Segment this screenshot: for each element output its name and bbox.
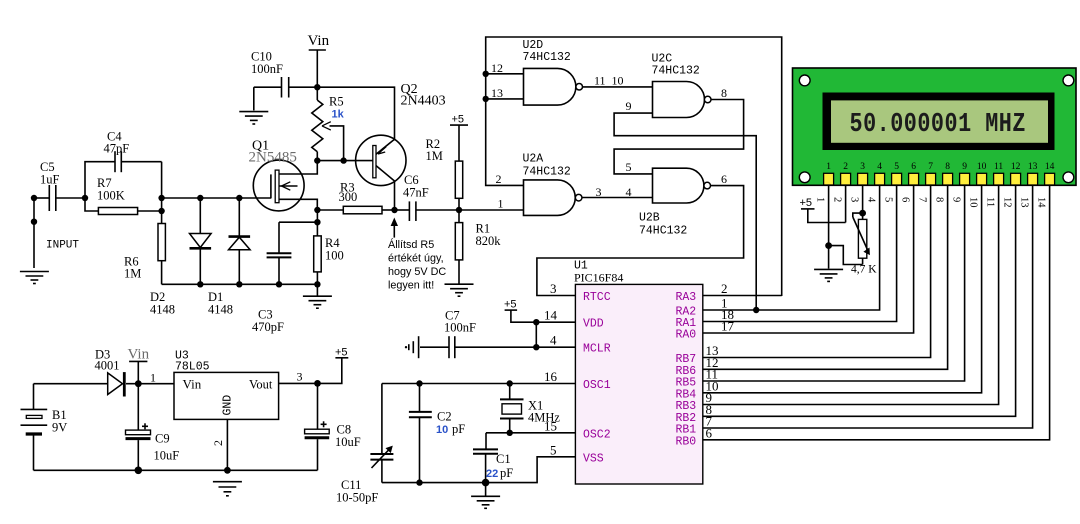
svg-text:1: 1 [150,371,156,385]
node OSC1 junctions [416,380,513,386]
svg-text:5: 5 [626,160,632,174]
svg-text:74HC132: 74HC132 [652,65,700,78]
resistor R1 [455,210,462,284]
power +5 (supply out) [335,347,348,359]
capacitor C8 [305,383,330,470]
svg-text:11: 11 [985,197,996,207]
svg-text:8: 8 [934,197,945,202]
svg-text:4: 4 [866,197,877,203]
svg-text:13: 13 [1028,162,1038,172]
svg-text:U2A: U2A [523,153,544,166]
svg-text:legyen itt!: legyen itt! [388,280,434,292]
svg-text:13: 13 [491,86,503,100]
svg-text:8: 8 [721,86,727,100]
svg-text:2N4403: 2N4403 [401,94,446,109]
node Vout junction [314,380,321,387]
ground (C10) [239,112,268,124]
wire LCD pin3 down [859,185,866,219]
power Vin (supply) [128,347,150,384]
capacitor C3 [267,222,318,287]
wire RB6 to LCD [703,185,948,369]
svg-text:10uF: 10uF [335,435,361,449]
power +5 (VDD) [504,299,575,323]
svg-text:2: 2 [496,172,502,186]
node C1/C2 bottom junctions [416,479,489,487]
wire RA2 to LCD [703,185,880,310]
svg-text:16: 16 [544,369,558,384]
svg-text:pF: pF [452,422,465,436]
svg-text:4,7 K: 4,7 K [851,264,877,276]
resistor R4 [314,207,322,288]
svg-text:11: 11 [994,162,1003,172]
svg-text:+5: +5 [452,114,465,126]
node B junction [158,162,164,224]
svg-text:Állítsd R5: Állítsd R5 [388,238,434,251]
svg-text:9: 9 [962,162,967,172]
svg-text:1uF: 1uF [40,173,60,187]
diode D2 [190,195,212,288]
wire U2D inputs from RA3 rail [483,37,782,296]
op-amp U2B 74HC132 nand [653,168,711,203]
svg-text:4MHz: 4MHz [528,411,560,425]
svg-text:10: 10 [977,162,987,172]
svg-text:C2: C2 [437,410,452,424]
wire VSS bottom rail [382,457,576,483]
node R1/R2/C6 junction [456,207,462,213]
node RA2 junction [753,307,759,313]
svg-text:1: 1 [498,197,504,211]
wire bottom rail front-end [162,283,318,285]
wire MCLR line [455,346,576,348]
svg-text:300: 300 [339,190,358,204]
wire U2D out to U2C in (pins 11-10) [583,86,653,88]
resistor R7 [98,208,137,215]
svg-text:7: 7 [928,162,933,172]
svg-text:Vout: Vout [249,378,273,392]
svg-text:4: 4 [877,162,882,172]
wire U2B out 6 to RTCC [537,186,744,296]
regulator U3 78L05 [174,372,279,419]
svg-text:820k: 820k [476,234,502,248]
power Vin (top) [308,33,330,87]
svg-text:14: 14 [544,308,558,323]
svg-text:PIC16F84: PIC16F84 [574,271,623,285]
svg-text:47pF: 47pF [104,142,130,156]
svg-text:4148: 4148 [150,303,175,317]
svg-text:+5: +5 [335,347,348,359]
svg-text:1: 1 [815,197,826,202]
ground (input) [20,272,49,284]
wire U2A pin 1 input [459,209,524,211]
wire RA1 to LCD [703,185,897,322]
svg-text:4001: 4001 [95,359,120,373]
svg-text:6: 6 [900,197,911,202]
svg-text:1M: 1M [124,267,141,281]
svg-text:4: 4 [626,185,632,199]
svg-text:9: 9 [951,197,962,202]
svg-text:6: 6 [911,162,916,172]
svg-text:12: 12 [491,61,503,75]
svg-text:2: 2 [832,197,843,202]
node Q2 collector junction [391,207,397,213]
node Vin junction [135,380,142,387]
ground (C7 sideways) [405,336,419,358]
svg-text:Vin: Vin [128,347,150,363]
wire top power rail [34,383,108,385]
wire RA0 to LCD [703,185,914,333]
svg-text:7: 7 [917,197,928,202]
transistor Q2 2N4403 [356,135,406,210]
node VDD junction [533,319,539,350]
op-amp U2A 74HC132 nand [524,180,582,216]
battery B1 9V [21,384,48,471]
wire RB2 to LCD [703,185,1016,416]
ground (R1) [445,284,474,296]
diode D1 [229,195,251,288]
svg-text:R5: R5 [329,95,344,109]
svg-text:hogy 5V DC: hogy 5V DC [388,266,446,278]
wire RB3 to LCD [703,185,999,405]
transistor Q1 2N5485 [253,160,317,211]
svg-text:78L05: 78L05 [175,361,210,374]
svg-text:1: 1 [826,162,831,172]
svg-text:Vin: Vin [183,377,202,392]
svg-text:9: 9 [626,99,632,113]
svg-text:100nF: 100nF [444,321,476,335]
svg-text:C1: C1 [496,452,511,466]
svg-text:1k: 1k [332,109,345,121]
power +5 (LCD pin2) [800,197,846,223]
wire U2A out 3 to U2B in 4 [582,197,653,199]
svg-text:5: 5 [894,162,899,172]
svg-text:3: 3 [297,370,303,384]
node Vin/C10 junction [314,84,320,90]
diode D3 [108,372,174,396]
annotation text (Hungarian) [388,238,446,292]
ground (VSS) [471,483,500,509]
svg-text:VSS: VSS [583,452,604,465]
wire RA3 to gate rail [703,295,782,297]
wire input to C5 [34,197,49,199]
svg-text:22: 22 [486,468,498,480]
svg-text:10: 10 [968,197,979,208]
svg-text:MCLR: MCLR [583,343,611,356]
U1 PIC16F84 [575,284,702,484]
svg-text:100K: 100K [97,189,125,203]
power +5 (R2) [450,114,468,162]
svg-text:14: 14 [1036,197,1047,208]
svg-text:RTCC: RTCC [583,291,611,304]
svg-text:10: 10 [436,424,448,436]
svg-text:47nF: 47nF [403,186,429,200]
wire U3 Vout to +5 [279,358,342,384]
svg-text:9V: 9V [52,421,67,435]
svg-text:100: 100 [325,249,344,263]
LCD bezel [823,93,1055,151]
capacitor C2 [409,384,432,483]
node battery bottom rail junction [135,467,143,475]
potentiometer R5 [312,87,344,160]
svg-text:3: 3 [550,281,557,296]
capacitor C5 [49,185,85,211]
svg-text:3: 3 [860,162,865,172]
node R5 wiper/base junctions [314,157,347,163]
node OSC2 junction [507,430,513,436]
wire RB1 to LCD [703,185,1033,428]
svg-text:74HC132: 74HC132 [523,51,571,64]
svg-text:VDD: VDD [583,318,604,331]
svg-text:INPUT: INPUT [46,240,79,252]
capacitor C6 [395,201,460,221]
svg-text:5: 5 [883,197,894,202]
wire LCD pin2 down [845,185,847,223]
svg-text:U2B: U2B [639,212,660,225]
wire RB7 to LCD [703,185,931,358]
wire OSC1 line [382,383,576,385]
svg-text:2: 2 [843,162,848,172]
svg-text:10uF: 10uF [154,449,180,463]
op-amp U2C 74HC132 nand [653,82,712,118]
svg-text:11: 11 [594,74,606,88]
capacitor C4 [115,151,162,172]
capacitor C9 [126,384,151,471]
wire U2C pin 9 from RA2 [614,113,756,310]
node INPUT terminal [31,195,37,268]
LCD pin numbers 1-14 [826,162,1054,172]
svg-text:50.000001 MHZ: 50.000001 MHZ [850,110,1026,140]
wire base line to Q2 [317,160,373,162]
LCD screen [831,100,1048,142]
LCD pins (yellow) [824,173,1055,185]
svg-text:+5: +5 [800,197,813,209]
wire node A down to R7 [85,198,98,211]
LCD module body [793,68,1077,185]
LCD mounting holes [799,75,1074,183]
svg-text:10-50pF: 10-50pF [336,491,378,505]
svg-text:3: 3 [849,197,860,202]
capacitor C1 [473,433,498,483]
svg-text:4148: 4148 [208,303,233,317]
wire RB4 to LCD [703,185,982,393]
svg-text:5: 5 [550,442,557,457]
ground (LCD pin1) [814,269,843,281]
svg-text:13: 13 [1019,197,1030,208]
wire Vin rail to Q2 emitter [317,87,394,140]
ground (U3) [213,482,242,496]
svg-text:12: 12 [1011,162,1021,172]
wire node B to Q1 gate [162,197,271,199]
svg-text:OSC1: OSC1 [583,379,611,392]
wire OSC2 line [486,432,575,434]
wire RB0 to LCD [703,185,1050,440]
svg-text:8: 8 [945,162,950,172]
resistor R3 [317,206,394,214]
capacitor C7 [420,336,455,358]
svg-text:100nF: 100nF [251,62,283,76]
svg-text:GND: GND [222,395,235,416]
resistor R2 [455,161,462,210]
svg-text:14: 14 [1045,162,1055,172]
node A junction [82,195,88,201]
crystal X1 4MHz [500,384,524,433]
svg-text:2N5485: 2N5485 [249,150,297,166]
svg-text:pF: pF [500,466,513,480]
svg-text:OSC2: OSC2 [583,428,611,441]
wire U2C out 8 to U2B in 5 [614,100,744,174]
ground (R4) [303,284,332,308]
capacitor C11 variable [370,384,393,483]
capacitor C10 [254,77,317,110]
potentiometer 4,7K [829,213,870,264]
wire U3 GND pin 2 [224,419,231,473]
svg-text:74HC132: 74HC132 [639,225,687,238]
svg-text:6: 6 [721,172,727,186]
resistor R6 [158,224,165,261]
op-amp U2D 74HC132 nand [524,68,583,105]
svg-text:1M: 1M [426,149,443,163]
svg-text:RB0: RB0 [676,435,697,448]
wire LCD pin1 to ground [825,185,832,269]
svg-text:2: 2 [721,281,728,296]
svg-text:+5: +5 [504,299,517,311]
svg-text:470pF: 470pF [252,320,284,334]
svg-text:2: 2 [211,440,225,446]
svg-text:10: 10 [612,74,624,88]
annotation arrow [391,218,398,238]
svg-text:4: 4 [550,333,557,348]
svg-text:3: 3 [596,185,602,199]
svg-text:értékét úgy,: értékét úgy, [388,253,444,265]
svg-text:12: 12 [1002,197,1013,208]
wire bottom power rail [34,469,318,471]
svg-text:RA3: RA3 [676,291,697,304]
LCD wire numbers (rotated) [815,197,1047,208]
svg-text:Vin: Vin [308,33,330,49]
wire RB5 to LCD [703,185,965,381]
svg-text:C9: C9 [155,432,170,446]
svg-text:RA0: RA0 [676,329,697,342]
wire node A up to C4 branch [85,162,115,198]
svg-text:74HC132: 74HC132 [523,166,571,179]
